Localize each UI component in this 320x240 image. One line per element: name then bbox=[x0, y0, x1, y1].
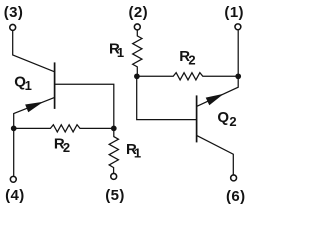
svg-text:(2): (2) bbox=[129, 4, 149, 21]
svg-text:Q1: Q1 bbox=[14, 73, 32, 93]
svg-text:(3): (3) bbox=[4, 4, 24, 21]
svg-text:(1): (1) bbox=[224, 4, 244, 21]
svg-text:R1: R1 bbox=[126, 141, 141, 161]
svg-text:(5): (5) bbox=[105, 187, 125, 204]
svg-text:R1: R1 bbox=[109, 40, 124, 60]
svg-text:R2: R2 bbox=[179, 48, 195, 68]
svg-text:R2: R2 bbox=[54, 136, 70, 156]
svg-text:(6): (6) bbox=[226, 188, 246, 205]
svg-text:(4): (4) bbox=[5, 187, 25, 204]
svg-text:Q2: Q2 bbox=[217, 109, 236, 129]
